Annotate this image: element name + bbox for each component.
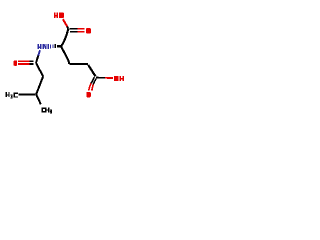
double bond C2=O right line black part	[93, 79, 96, 85]
hashed wedge Calpha-N dashes	[48, 44, 62, 49]
bond CH2-C2	[88, 65, 95, 76]
double bond C1=O lower line red part	[78, 31, 85, 33]
double bond C2=O left line red part	[89, 83, 91, 90]
bond CH-CH3 (down-right to label)	[36, 94, 41, 104]
label CH3: C	[41, 108, 52, 114]
label HN: H	[37, 44, 46, 49]
amide double bond C1'=O lower line red part	[18, 63, 30, 65]
amide double bond C1'=O upper line black part	[30, 60, 34, 62]
label HO (top): O solid square	[59, 12, 64, 18]
bond C1'-CH2	[36, 63, 43, 77]
bond C2-OH red half	[105, 77, 113, 79]
label HO (top): H	[54, 12, 64, 18]
double bond C2=O right line red part	[92, 85, 93, 91]
double bond C1=O upper line red part	[78, 28, 85, 30]
O atom square (top right)	[86, 28, 91, 33]
label H3C: C	[14, 92, 15, 97]
label OH (right): O solid square	[114, 76, 124, 81]
amide double bond C1'=O upper line red part	[18, 60, 30, 62]
label H3C: subscript 3	[11, 94, 12, 98]
label OH (right): H	[120, 76, 121, 81]
bond CH2-CH2 (horizontal)	[69, 63, 88, 65]
label H3C: H	[6, 92, 18, 99]
bond N-C1' amide blue upper part	[38, 50, 40, 55]
label CH3: subscript 3	[51, 109, 52, 113]
label CH3: H	[45, 108, 46, 113]
double bond C1=O lower line black part	[70, 31, 78, 33]
bond O-C1 red upper half	[63, 19, 67, 26]
bond Calpha-CH2(beta)	[61, 46, 69, 64]
bond CH2-CH	[36, 76, 43, 94]
O atom square (amide O, left)	[14, 61, 17, 66]
double bond C2=O left line black part	[91, 77, 94, 83]
wedge junction stub at Calpha	[57, 45, 61, 47]
double bond C1=O upper line black part	[69, 28, 77, 30]
label HN: N	[43, 44, 44, 49]
bond CH-H3C (horizontal to label)	[19, 94, 36, 96]
O atom square (bottom)	[86, 92, 91, 97]
bond O-C1 black lower half	[67, 27, 68, 29]
bond C1-Calpha	[61, 29, 68, 47]
amide double bond C1'=O lower line black part	[30, 63, 34, 65]
bond C2-OH black half	[96, 77, 105, 79]
bond N-C1' amide black lower part	[36, 56, 38, 63]
